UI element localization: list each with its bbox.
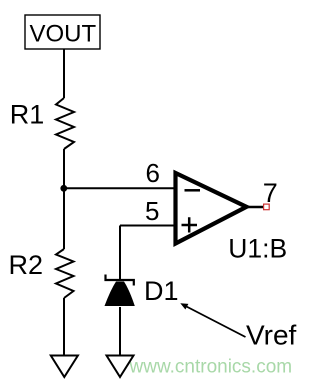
svg-text:VOUT: VOUT: [29, 20, 96, 47]
svg-text:U1:B: U1:B: [228, 233, 287, 263]
svg-text:www.cntronics.com: www.cntronics.com: [129, 357, 293, 378]
svg-text:5: 5: [145, 196, 159, 226]
svg-text:R2: R2: [9, 250, 44, 280]
svg-text:R1: R1: [10, 99, 45, 129]
svg-text:Vref: Vref: [246, 320, 297, 351]
svg-text:7: 7: [263, 178, 278, 208]
svg-text:6: 6: [145, 158, 159, 188]
svg-text:D1: D1: [144, 276, 179, 306]
